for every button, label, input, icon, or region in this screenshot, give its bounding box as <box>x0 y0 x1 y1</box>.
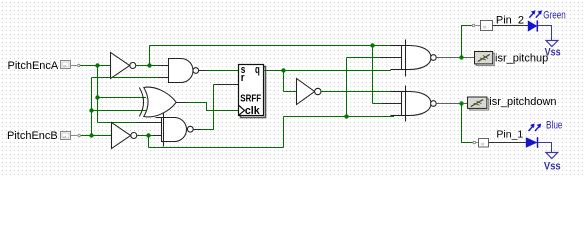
svg-text:clk: clk <box>245 105 261 117</box>
inverter U1 PitchEncA <box>111 53 136 79</box>
junction U7 output <box>459 101 463 105</box>
svg-text:PitchEncB: PitchEncB <box>7 130 58 142</box>
wire net Q <box>264 71 392 92</box>
wire to Pin_2 <box>462 26 472 58</box>
junction net B at XOR input <box>89 108 93 112</box>
junction U6 output <box>459 55 463 59</box>
isr_pitchdown interrupt block <box>468 96 557 110</box>
wire LED D2 to Vss <box>538 143 552 153</box>
svg-text:Vss: Vss <box>544 160 561 172</box>
3-input NAND U5 <box>156 113 194 147</box>
svg-text:Pin_2: Pin_2 <box>496 15 524 27</box>
junction net Q <box>281 68 285 72</box>
output port Pin_1 <box>473 128 526 147</box>
2-input NAND U2 <box>169 59 199 83</box>
wire U5 output to SRFF r <box>193 85 239 130</box>
junction net B_inv at U5 input <box>146 133 150 137</box>
svg-text:Blue: Blue <box>546 120 563 132</box>
SRFF flip-flop U8 <box>239 64 266 118</box>
wire XOR output to SRFF clk <box>176 103 239 111</box>
output port Pin_2 <box>472 15 528 31</box>
wire net A <box>80 66 161 123</box>
junction net A at inverter input <box>95 63 99 67</box>
wire net Q_inv <box>321 91 391 93</box>
svg-text:Pin_1: Pin_1 <box>496 128 523 140</box>
junction net A_inv at U2 input <box>147 63 151 67</box>
isr_pitchup interrupt block <box>475 52 549 66</box>
ground Vss bottom <box>544 153 561 173</box>
wire net B_inv <box>137 58 405 148</box>
junction net A at XOR input <box>95 95 99 99</box>
svg-text:isr_pitchdown: isr_pitchdown <box>489 96 556 108</box>
wire U2 output to SRFF s <box>199 70 239 72</box>
ground Vss top <box>545 41 561 59</box>
svg-text:SRFF: SRFF <box>240 93 261 104</box>
inverter U3 PitchEncB <box>112 123 137 149</box>
wire net B <box>81 78 169 136</box>
junction net B at inverter input <box>89 133 93 137</box>
svg-text:Green: Green <box>543 9 566 21</box>
wire net A_inv <box>136 46 405 104</box>
junction net A_inv top rail <box>370 43 374 47</box>
LED D2 Blue <box>526 120 563 148</box>
3-input NAND U6 <box>391 40 437 77</box>
input port PitchEncB <box>7 130 80 142</box>
inverter U9 Q <box>297 79 321 105</box>
svg-text:isr_pitchup: isr_pitchup <box>495 52 548 64</box>
wire LED D1 to Vss <box>537 26 551 41</box>
input port PitchEncA <box>8 60 81 72</box>
wire to Pin_1 <box>462 104 473 143</box>
3-input NAND U7 <box>391 86 437 122</box>
wire U6 output node <box>436 57 475 59</box>
svg-text:r: r <box>241 72 245 84</box>
svg-text:Vss: Vss <box>545 47 561 59</box>
junction net B_inv at U6 branch <box>344 114 348 118</box>
LED D1 Green <box>528 9 566 31</box>
svg-text:PitchEncA: PitchEncA <box>8 60 59 72</box>
svg-text:q: q <box>255 64 260 76</box>
XOR gate U4 <box>139 87 176 117</box>
wire U7 output node <box>436 103 468 105</box>
